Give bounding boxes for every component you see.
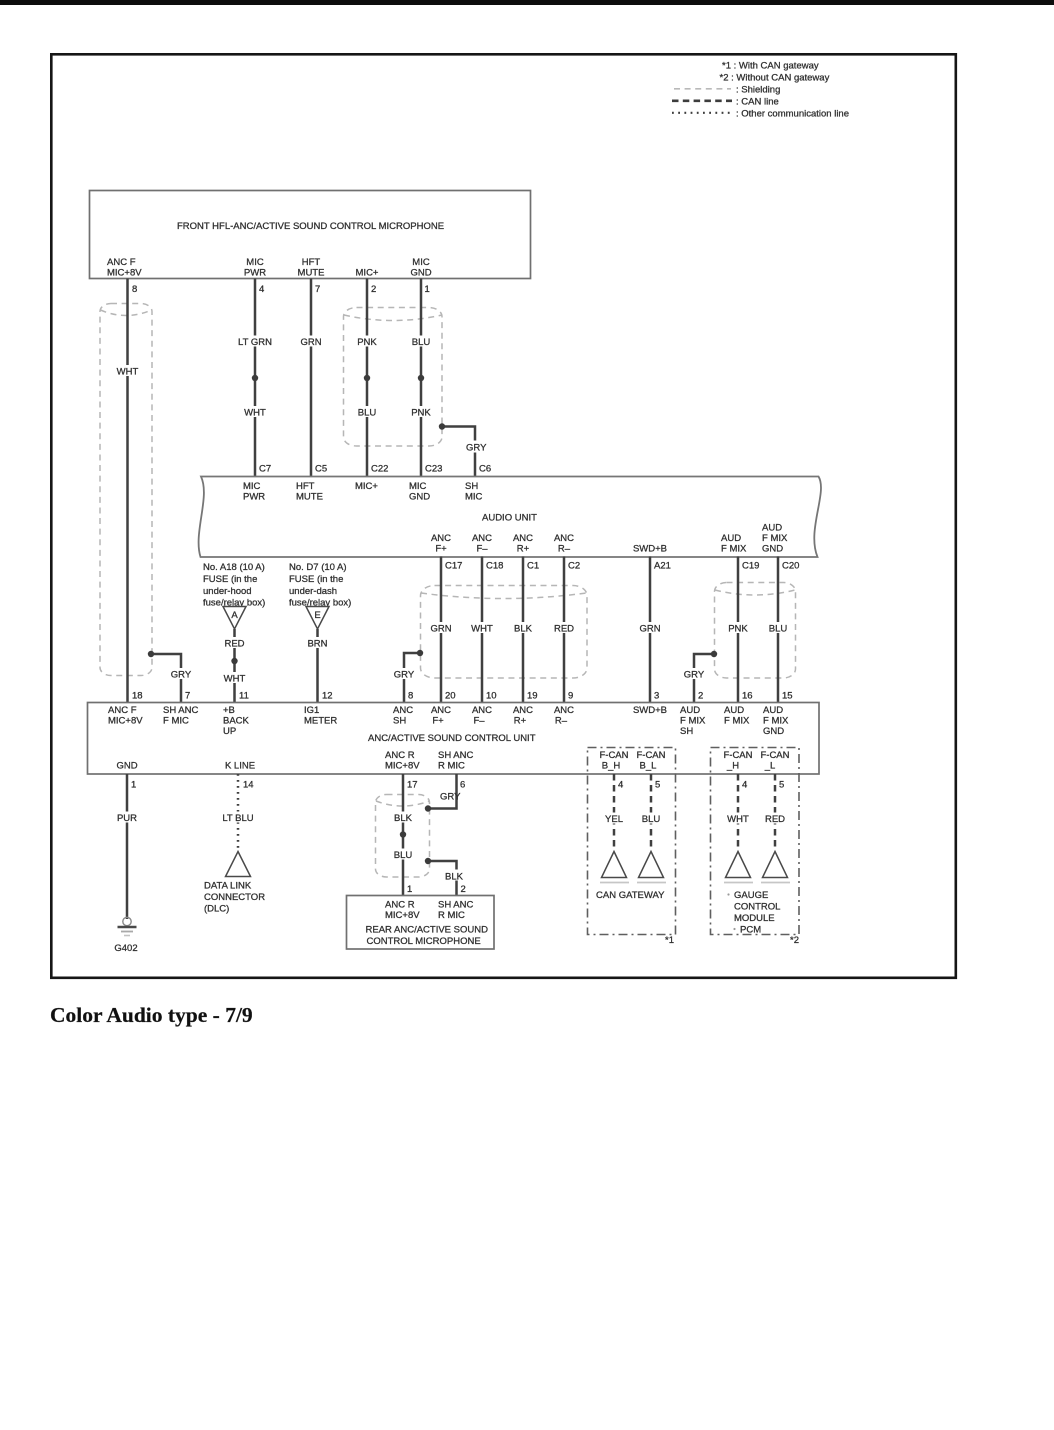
svg-text:_H: _H xyxy=(726,761,739,772)
svg-text:17: 17 xyxy=(407,780,418,791)
svg-text:DATA LINK: DATA LINK xyxy=(204,881,252,892)
unit pin label AUD F MIX SH xyxy=(680,705,706,737)
svg-text:11: 11 xyxy=(239,691,249,702)
svg-text:C19: C19 xyxy=(742,561,759,572)
svg-text:C23: C23 xyxy=(425,464,442,475)
shield (dashed) around MIC+ / MIC GND wires xyxy=(344,308,443,447)
svg-text:1: 1 xyxy=(425,284,430,295)
svg-text:6: 6 xyxy=(460,780,465,791)
off-page triangle (CAN gateway B_L) xyxy=(637,852,666,883)
svg-text:ANC: ANC xyxy=(472,705,492,716)
top page rule bar xyxy=(0,0,1054,5)
svg-text:F MIC: F MIC xyxy=(163,716,189,727)
svg-text:SH: SH xyxy=(680,726,693,737)
svg-text:ANC: ANC xyxy=(431,705,451,716)
wire color label WHT xyxy=(242,406,268,419)
splice dot on MIC+ wire xyxy=(364,375,370,381)
svg-text:B_H: B_H xyxy=(602,761,621,772)
svg-text:BACK: BACK xyxy=(223,716,250,727)
off-page triangle (gauge _L) xyxy=(761,852,790,883)
svg-text:1: 1 xyxy=(131,780,136,791)
fuse A18 note text xyxy=(203,562,265,609)
svg-text:F MIX: F MIX xyxy=(721,544,747,555)
svg-text:9: 9 xyxy=(568,691,573,702)
svg-text:(DLC): (DLC) xyxy=(204,904,229,915)
svg-text:GRN: GRN xyxy=(430,624,451,635)
AUDIO UNIT band (torn-edge box) xyxy=(199,477,821,558)
svg-text:RED: RED xyxy=(554,624,574,635)
svg-text:MIC+8V: MIC+8V xyxy=(385,761,420,772)
svg-text:PUR: PUR xyxy=(117,813,137,824)
unit pin label SH ANC R MIC xyxy=(438,750,474,772)
svg-text:GRY: GRY xyxy=(440,792,461,803)
audio unit pin label ANC R- xyxy=(554,533,574,555)
svg-text:ANC: ANC xyxy=(472,533,492,544)
svg-text:7: 7 xyxy=(315,284,320,295)
wire AUD F MIX GND C20 to pin15 (BLU) xyxy=(777,557,780,703)
svg-text:F–: F– xyxy=(476,544,488,555)
splice dot on MIC GND wire xyxy=(418,375,424,381)
svg-text:*2 : Without CAN gateway: *2 : Without CAN gateway xyxy=(720,73,830,84)
svg-text:MUTE: MUTE xyxy=(298,268,325,279)
splice dot on ANC R wire xyxy=(400,831,406,837)
svg-text:CONNECTOR: CONNECTOR xyxy=(204,892,265,903)
wire IG1 METER fuse E to pin12 (BRN) xyxy=(316,629,319,703)
svg-text:10: 10 xyxy=(486,691,497,702)
svg-text:GND: GND xyxy=(410,268,431,279)
svg-text:ANC: ANC xyxy=(393,705,413,716)
pin label HFT MUTE (front mic) xyxy=(298,257,325,279)
svg-text:C7: C7 xyxy=(259,464,271,475)
audio unit pin label AUD F MIX xyxy=(721,533,747,555)
shield (dashed) around rear ANC R MIC+8V wire xyxy=(376,795,430,878)
svg-text:F-CAN: F-CAN xyxy=(636,750,665,761)
svg-text:GRY: GRY xyxy=(684,670,705,681)
svg-text:G402: G402 xyxy=(114,943,137,954)
svg-text:F MIX: F MIX xyxy=(762,533,788,544)
audio unit pin label AUD F MIX GND xyxy=(762,523,788,555)
unit pin label +B BACK UP xyxy=(223,705,250,737)
svg-text:GRN: GRN xyxy=(300,337,321,348)
svg-text:F MIX: F MIX xyxy=(680,716,706,727)
wire ANC F MIC+8V (WHT) pin8 to pin18 xyxy=(126,279,129,703)
wire F-CAN B_L pin5 (BLU, CAN line) xyxy=(650,774,653,851)
svg-text:MIC+8V: MIC+8V xyxy=(108,716,143,727)
svg-text:ANC R: ANC R xyxy=(385,900,415,911)
wire ANC F+ C17 to pin20 (GRN) xyxy=(440,557,443,703)
svg-text:BLK: BLK xyxy=(394,813,413,824)
svg-text:BLU: BLU xyxy=(769,624,788,635)
svg-text:C20: C20 xyxy=(782,561,799,572)
diagram outer frame xyxy=(51,54,956,978)
wire +B BACK UP fuse A to pin11 (RED / WHT) xyxy=(233,629,236,703)
svg-text:F+: F+ xyxy=(435,544,447,555)
svg-text:AUD: AUD xyxy=(762,523,782,534)
svg-text:ANC R: ANC R xyxy=(385,750,415,761)
svg-text:C17: C17 xyxy=(445,561,462,572)
svg-text:ANC: ANC xyxy=(554,705,574,716)
svg-text:2: 2 xyxy=(371,284,376,295)
svg-text:: Other communication line: : Other communication line xyxy=(736,109,849,120)
svg-text:1: 1 xyxy=(407,884,412,895)
svg-text:MIC+: MIC+ xyxy=(355,481,378,492)
svg-text:3: 3 xyxy=(654,691,659,702)
wire GND pin1 to G402 (PUR) xyxy=(126,774,129,919)
svg-text:8: 8 xyxy=(132,284,137,295)
svg-text:15: 15 xyxy=(782,691,793,702)
wire color label LT GRN xyxy=(235,336,275,349)
svg-text:Color Audio type - 7/9: Color Audio type - 7/9 xyxy=(50,1003,253,1027)
svg-text:PNK: PNK xyxy=(357,337,377,348)
svg-text:GRN: GRN xyxy=(639,624,660,635)
svg-text:*2: *2 xyxy=(790,935,799,946)
shield drain wire to rear mic pin2 (BLK) xyxy=(425,858,469,895)
ground symbol G402 xyxy=(114,917,137,954)
svg-text:_L: _L xyxy=(764,761,776,772)
svg-text:HFT: HFT xyxy=(296,481,315,492)
shield (dashed) around AUD F MIX wires xyxy=(715,583,796,679)
svg-text:C22: C22 xyxy=(371,464,388,475)
svg-text:8: 8 xyxy=(408,691,413,702)
svg-text:WHT: WHT xyxy=(727,814,749,825)
svg-text:CONTROL: CONTROL xyxy=(734,902,780,913)
svg-text:*1 : With CAN gateway: *1 : With CAN gateway xyxy=(722,61,819,72)
svg-text:SWD+B: SWD+B xyxy=(633,705,667,716)
svg-text:AUD: AUD xyxy=(680,705,700,716)
svg-text:A21: A21 xyxy=(654,561,671,572)
wire ANC R- C2 to pin9 (RED) xyxy=(563,557,566,703)
audio unit pin label MIC PWR xyxy=(243,481,265,503)
svg-text:BLK: BLK xyxy=(514,624,533,635)
wire MIC GND pin1 to C23 (BLU / PNK) xyxy=(420,279,423,477)
svg-text:SH ANC: SH ANC xyxy=(163,705,199,716)
svg-text:4: 4 xyxy=(618,780,623,791)
svg-text:C18: C18 xyxy=(486,561,503,572)
pin label MIC PWR (front mic) xyxy=(244,257,266,279)
shield drain wire to C6 (GRY) xyxy=(439,423,489,476)
svg-text:GRY: GRY xyxy=(394,670,415,681)
wire color label PNK xyxy=(408,406,434,419)
svg-text:No. A18 (10 A): No. A18 (10 A) xyxy=(203,562,265,573)
rear mic pin label ANC R MIC+8V xyxy=(385,900,420,922)
svg-text:E: E xyxy=(314,610,320,621)
svg-text:ANC: ANC xyxy=(513,705,533,716)
svg-text:BLK: BLK xyxy=(445,872,464,883)
svg-text:SH ANC: SH ANC xyxy=(438,900,474,911)
svg-text:IG1: IG1 xyxy=(304,705,319,716)
off-page triangle (CAN gateway B_H) xyxy=(600,852,629,883)
unit pin label AUD F MIX GND xyxy=(763,705,789,737)
svg-text:ANC: ANC xyxy=(513,533,533,544)
svg-text:PCM: PCM xyxy=(740,925,761,936)
svg-text:WHT: WHT xyxy=(244,408,266,419)
unit pin label F-CAN B_L xyxy=(636,750,665,772)
svg-text:18: 18 xyxy=(132,691,143,702)
svg-text:R–: R– xyxy=(558,544,571,555)
wire ANC R+ C1 to pin19 (BLK) xyxy=(522,557,525,703)
svg-text:GND: GND xyxy=(763,726,784,737)
svg-text:MIC+8V: MIC+8V xyxy=(107,268,142,279)
wire color label BLU xyxy=(355,406,379,419)
svg-text:R+: R+ xyxy=(514,716,527,727)
wire ANC R MIC+8V pin17 to rear mic pin1 (BLK / BLU) xyxy=(402,774,405,895)
svg-text:F-CAN: F-CAN xyxy=(760,750,789,761)
pin label MIC GND (front mic) xyxy=(410,257,431,279)
svg-text:F MIX: F MIX xyxy=(763,716,789,727)
wire SWD+B A21 to pin3 (GRN) xyxy=(649,557,652,703)
svg-text:MIC: MIC xyxy=(465,492,483,503)
svg-text:C6: C6 xyxy=(479,464,491,475)
fuse E symbol xyxy=(306,607,329,630)
svg-text:F-CAN: F-CAN xyxy=(723,750,752,761)
svg-text:F-CAN: F-CAN xyxy=(599,750,628,761)
svg-text:under-dash: under-dash xyxy=(289,586,337,597)
unit pin label F-CAN B_H xyxy=(599,750,628,772)
svg-text:PWR: PWR xyxy=(243,492,265,503)
svg-text:: CAN line: : CAN line xyxy=(736,97,779,108)
wire F-CAN _H pin4 (WHT, CAN line) xyxy=(737,774,740,851)
audio unit pin label MIC GND xyxy=(409,481,430,503)
svg-text:WHT: WHT xyxy=(471,624,493,635)
svg-text:R MIC: R MIC xyxy=(438,910,465,921)
ANC/ACTIVE SOUND CONTROL UNIT box xyxy=(88,703,820,775)
audio unit pin label SH MIC xyxy=(465,481,483,503)
unit pin label IG1 METER xyxy=(304,705,337,727)
svg-text:ANC F: ANC F xyxy=(108,705,137,716)
svg-text:20: 20 xyxy=(445,691,456,702)
svg-text:LT GRN: LT GRN xyxy=(238,337,272,348)
svg-text:SH: SH xyxy=(465,481,478,492)
unit pin label SH ANC F MIC xyxy=(163,705,199,727)
wire ANC F- C18 to pin10 (WHT) xyxy=(481,557,484,703)
shield drain wire from pin6 SH ANC R MIC (GRY) xyxy=(425,774,461,812)
shield drain wire to pin8 ANC SH (GRY) xyxy=(391,650,423,703)
svg-text:4: 4 xyxy=(259,284,264,295)
unit pin label ANC SH xyxy=(393,705,413,727)
svg-text:+B: +B xyxy=(223,705,235,716)
svg-text:16: 16 xyxy=(742,691,753,702)
shield (dashed) around ANC F MIC+8V wire xyxy=(100,304,152,676)
svg-text:MIC: MIC xyxy=(246,257,264,268)
svg-text:A: A xyxy=(231,610,238,621)
unit pin label ANC R MIC+8V xyxy=(385,750,420,772)
splice dot on +B wire xyxy=(231,658,237,664)
svg-text:B_L: B_L xyxy=(640,761,657,772)
svg-text:PWR: PWR xyxy=(244,268,266,279)
svg-text:F+: F+ xyxy=(432,716,444,727)
svg-text:AUD: AUD xyxy=(763,705,783,716)
CAN GATEWAY module box (dash-dot, *1) xyxy=(588,748,676,947)
svg-text:*1: *1 xyxy=(665,935,674,946)
svg-text:BLU: BLU xyxy=(394,850,413,861)
svg-text:C1: C1 xyxy=(527,561,539,572)
svg-text:C5: C5 xyxy=(315,464,327,475)
svg-text:No. D7 (10 A): No. D7 (10 A) xyxy=(289,562,347,573)
svg-text:FUSE (in the: FUSE (in the xyxy=(289,574,343,585)
fuse A symbol xyxy=(223,607,246,630)
svg-text:AUD: AUD xyxy=(724,705,744,716)
svg-text:BRN: BRN xyxy=(307,639,327,650)
wire F-CAN _L pin5 (RED, CAN line) xyxy=(774,774,777,851)
svg-text:5: 5 xyxy=(655,780,660,791)
legend other communication sample xyxy=(672,112,733,114)
legend CAN line sample xyxy=(672,99,732,102)
svg-text:WHT: WHT xyxy=(224,674,246,685)
svg-text:: Shielding: : Shielding xyxy=(736,85,780,96)
wire HFT MUTE pin7 to C5 (GRN) xyxy=(310,279,313,477)
svg-text:MUTE: MUTE xyxy=(296,492,323,503)
wire color label WHT xyxy=(115,365,140,378)
svg-text:GAUGE: GAUGE xyxy=(734,890,768,901)
svg-text:ANC/ACTIVE SOUND CONTROL UNIT: ANC/ACTIVE SOUND CONTROL UNIT xyxy=(368,733,536,744)
svg-text:SH: SH xyxy=(393,716,406,727)
unit pin label AUD F MIX xyxy=(724,705,750,727)
data link connector DLC symbol xyxy=(204,852,265,915)
unit pin label F-CAN _H xyxy=(723,750,752,772)
svg-text:MIC+: MIC+ xyxy=(356,268,379,279)
unit pin label F-CAN _L xyxy=(760,750,789,772)
unit pin label ANC R+ xyxy=(513,705,533,727)
fuse D7 note text xyxy=(289,562,351,609)
svg-text:BLU: BLU xyxy=(358,408,377,419)
splice dot on MIC PWR wire xyxy=(252,375,258,381)
svg-text:LT BLU: LT BLU xyxy=(222,813,253,824)
svg-text:MODULE: MODULE xyxy=(734,913,775,924)
svg-text:RED: RED xyxy=(224,639,244,650)
svg-text:PNK: PNK xyxy=(728,624,748,635)
svg-text:MIC: MIC xyxy=(243,481,261,492)
svg-text:2: 2 xyxy=(698,691,703,702)
wire K LINE pin14 to DLC (LT BLU, other communication line) xyxy=(237,774,240,851)
svg-text:R–: R– xyxy=(555,716,568,727)
pin label ANC F MIC+8V (front mic) xyxy=(107,257,142,279)
off-page triangle (gauge _H) xyxy=(724,852,753,883)
unit pin label ANC F MIC+8V xyxy=(108,705,143,727)
svg-text:12: 12 xyxy=(322,691,333,702)
unit pin label ANC R- xyxy=(554,705,574,727)
svg-text:4: 4 xyxy=(742,780,747,791)
svg-text:SWD+B: SWD+B xyxy=(633,544,667,555)
svg-text:5: 5 xyxy=(779,780,784,791)
connector box REAR ANC/ACTIVE SOUND CONTROL MICROPHONE xyxy=(347,896,495,950)
wire F-CAN B_H pin4 (YEL, CAN line) xyxy=(613,774,616,851)
svg-text:GND: GND xyxy=(116,761,137,772)
GAUGE CONTROL MODULE / PCM box (dash-dot, *2) xyxy=(711,748,800,947)
svg-text:CONTROL MICROPHONE: CONTROL MICROPHONE xyxy=(367,936,481,947)
svg-text:MIC: MIC xyxy=(412,257,430,268)
legend shielding sample line xyxy=(674,88,731,90)
svg-text:UP: UP xyxy=(223,726,236,737)
svg-text:2: 2 xyxy=(461,884,466,895)
svg-text:AUDIO UNIT: AUDIO UNIT xyxy=(482,513,537,524)
svg-text:F MIX: F MIX xyxy=(724,716,750,727)
pin label MIC+ (front mic) xyxy=(356,268,379,279)
audio unit pin label HFT MUTE xyxy=(296,481,323,503)
connector box FRONT HFL-ANC/ACTIVE SOUND CONTROL MICROPHONE xyxy=(90,191,531,279)
rear mic pin label SH ANC R MIC xyxy=(438,900,474,922)
svg-text:METER: METER xyxy=(304,716,337,727)
svg-text:SH ANC: SH ANC xyxy=(438,750,474,761)
svg-text:ANC: ANC xyxy=(431,533,451,544)
unit pin label ANC F- xyxy=(472,705,492,727)
shield drain wire to pin2 AUD F MIX SH (GRY) xyxy=(681,651,717,703)
svg-text:R MIC: R MIC xyxy=(438,761,465,772)
svg-text:YEL: YEL xyxy=(605,814,623,825)
svg-text:RED: RED xyxy=(765,814,785,825)
wire color label GRN xyxy=(298,336,324,349)
svg-text:MIC+8V: MIC+8V xyxy=(385,910,420,921)
svg-text:7: 7 xyxy=(185,691,190,702)
svg-text:FRONT HFL-ANC/ACTIVE SOUND CON: FRONT HFL-ANC/ACTIVE SOUND CONTROL MICRO… xyxy=(177,221,444,232)
svg-text:BLU: BLU xyxy=(412,337,431,348)
svg-text:F–: F– xyxy=(473,716,485,727)
svg-text:GND: GND xyxy=(762,544,783,555)
svg-text:R+: R+ xyxy=(517,544,530,555)
svg-text:GRY: GRY xyxy=(466,443,487,454)
svg-text:REAR ANC/ACTIVE SOUND: REAR ANC/ACTIVE SOUND xyxy=(366,925,489,936)
wire color label PNK xyxy=(354,336,380,349)
svg-text:19: 19 xyxy=(527,691,538,702)
svg-text:ANC: ANC xyxy=(554,533,574,544)
svg-text:WHT: WHT xyxy=(117,367,139,378)
svg-text:GRY: GRY xyxy=(171,670,192,681)
svg-text:HFT: HFT xyxy=(302,257,321,268)
svg-text:PNK: PNK xyxy=(411,408,431,419)
unit pin label ANC F+ xyxy=(431,705,451,727)
audio unit pin label ANC F+ xyxy=(431,533,451,555)
audio unit pin label ANC F- xyxy=(472,533,492,555)
shield (dashed) around ANC F/R wires xyxy=(421,586,588,679)
wire color label BLU xyxy=(409,336,433,349)
wire AUD F MIX C19 to pin16 (PNK) xyxy=(737,557,740,703)
svg-text:FUSE (in the: FUSE (in the xyxy=(203,574,257,585)
svg-text:under-hood: under-hood xyxy=(203,586,252,597)
svg-text:K LINE: K LINE xyxy=(225,761,255,772)
svg-text:14: 14 xyxy=(243,780,254,791)
wire MIC PWR pin4 to C7 (LT GRN / WHT) xyxy=(254,279,257,477)
audio unit pin label ANC R+ xyxy=(513,533,533,555)
wire MIC+ pin2 to C22 (PNK / BLU) xyxy=(366,279,369,477)
svg-text:C2: C2 xyxy=(568,561,580,572)
shield drain wire to pin7 SH ANC F MIC (GRY) xyxy=(148,651,194,703)
svg-text:ANC F: ANC F xyxy=(107,257,136,268)
svg-text:BLU: BLU xyxy=(642,814,661,825)
svg-text:AUD: AUD xyxy=(721,533,741,544)
svg-text:GND: GND xyxy=(409,492,430,503)
svg-text:CAN GATEWAY: CAN GATEWAY xyxy=(596,890,665,901)
svg-text:MIC: MIC xyxy=(409,481,427,492)
